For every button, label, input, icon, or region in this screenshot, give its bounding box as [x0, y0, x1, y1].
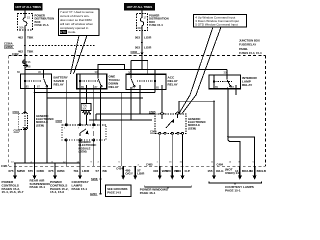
- junction dot on left feed: [24, 69, 26, 71]
- power distribution box label (left): [35, 14, 55, 28]
- svg-text:TBK: TBK: [27, 35, 34, 39]
- GEM module U2 (dashed, right): [149, 110, 186, 135]
- svg-text:10: 10: [250, 169, 254, 173]
- circuit breaker squiggle on left feed: [23, 60, 28, 68]
- svg-text:PAGE 46-1: PAGE 46-1: [140, 191, 156, 195]
- svg-text:O/BK: O/BK: [57, 169, 66, 173]
- svg-text:PAGE 45-1: PAGE 45-1: [30, 185, 46, 189]
- svg-text:G200: G200: [90, 192, 97, 196]
- wire header to fuse F1: [24, 11, 26, 14]
- wire bus B2 to relay3 pin 30: [130, 70, 132, 75]
- wire relay4 elbow to courtesy drop: [228, 137, 240, 166]
- bus wire B4: [47, 97, 143, 99]
- wire relay1 pin87 drop: [34, 89, 36, 164]
- bracket power windows: [145, 186, 192, 189]
- svg-text:SEE GROUNDS: SEE GROUNDS: [107, 187, 127, 191]
- arrow A11 courtesy lamps right 3: [250, 166, 267, 180]
- header bar HOT AT ALL TIMES (right): [124, 3, 155, 11]
- wire fuse F2 down (right feed): [141, 31, 143, 62]
- wire ground drop from B3: [100, 89, 102, 179]
- wire drops from relay3 pins: [131, 90, 162, 121]
- svg-text:S208: S208: [91, 177, 98, 181]
- svg-text:PANEL: PANEL: [239, 47, 248, 51]
- legend pointer wires to GEM pins: [179, 27, 213, 114]
- svg-text:JUNCTION BOX: JUNCTION BOX: [239, 39, 260, 43]
- svg-text:FUSE/RELAY: FUSE/RELAY: [239, 43, 256, 47]
- wire GEM U3 top feeds: [65, 80, 67, 125]
- arrow A5 power windows feed 1: [116, 166, 134, 180]
- bus wire B2 (main feed bus): [25, 69, 227, 71]
- bus wire B5: [96, 113, 155, 115]
- svg-text:mode.: mode.: [68, 30, 77, 34]
- resistor R1 10K: [81, 104, 91, 125]
- svg-text:O: O: [92, 128, 94, 130]
- svg-text:306: 306: [153, 169, 158, 173]
- svg-text:503: 503: [135, 46, 140, 50]
- power distribution box label (right): [149, 14, 169, 28]
- svg-text:462: 462: [18, 49, 23, 53]
- svg-text:RELAY: RELAY: [242, 83, 253, 87]
- connector label C485 on border: [146, 162, 153, 166]
- svg-text:155: 155: [207, 169, 212, 173]
- junction dot bus B2 at F2: [141, 69, 143, 71]
- connector C2368 dot on right feed: [141, 41, 143, 43]
- page connector label left edge: [1, 164, 8, 168]
- svg-text:LB/R: LB/R: [82, 169, 90, 173]
- GEM module U1 (dashed): [13, 110, 28, 133]
- svg-text:BK/LB: BK/LB: [257, 169, 267, 173]
- wire relay4 elbow to far right drop: [228, 89, 255, 166]
- svg-text:C485: C485: [146, 162, 153, 166]
- arrow A2 rear air suspension: [28, 163, 45, 180]
- junction dots on B3: [100, 92, 102, 94]
- wire relay4 pin85 long drop: [213, 101, 215, 166]
- bus wire B3: [35, 92, 156, 94]
- arrow A6 power windows 1: [153, 166, 168, 180]
- svg-text:FUSE 15-A: FUSE 15-A: [35, 23, 49, 27]
- junction dot elbow branch: [227, 136, 229, 138]
- text block courtesy lamps right: [225, 185, 254, 193]
- arrow A5b power windows feed 2: [133, 166, 145, 180]
- note box (7 and O sense note): [59, 9, 100, 36]
- svg-text:RELAY: RELAY: [109, 85, 120, 89]
- arrow A7 power windows 2: [165, 166, 179, 180]
- wire relay1 right pin down to bus B4: [46, 89, 48, 99]
- wire bus B2 to relay3 right top pin: [154, 70, 156, 75]
- svg-text:O/BK: O/BK: [37, 169, 46, 173]
- wire bus B2 to relay4 pin 30: [226, 70, 228, 76]
- wire relay2 pins down to GEM U2 connector: [80, 89, 94, 125]
- arrow A4 courtesy lamps left: [73, 166, 90, 180]
- svg-text:C236A: C236A: [4, 41, 13, 45]
- legend box (window command inputs): [194, 15, 247, 28]
- bus wire B6: [89, 119, 152, 121]
- GEM module U2 label: [188, 117, 206, 131]
- svg-text:LG/R: LG/R: [144, 35, 152, 39]
- wire GEM U1 bottom down to bus B7: [24, 129, 26, 163]
- relay K4 label: [242, 76, 258, 87]
- wire bridge relay3 pin30 to second top pin: [131, 61, 148, 75]
- connector pin ticks and numbers along border: [15, 165, 55, 168]
- svg-text:781: 781: [73, 169, 78, 173]
- svg-text:M/BR: M/BR: [17, 169, 26, 173]
- svg-text:462: 462: [18, 35, 23, 39]
- wire header to fuse F2: [141, 11, 143, 14]
- connector C402: [12, 52, 26, 58]
- wire relay2 pin to resistor: [86, 89, 88, 104]
- GEM module U1 label: [36, 114, 54, 128]
- wire F2 feed to bus B2: [141, 56, 143, 70]
- wire relay4 short pin stub: [235, 89, 237, 95]
- svg-text:C505: C505: [150, 130, 157, 134]
- svg-text:HOT AT ALL TIMES: HOT AT ALL TIMES: [15, 5, 41, 9]
- svg-text:14: 14: [235, 169, 239, 173]
- svg-text:PAGE 15-1: PAGE 15-1: [225, 189, 241, 193]
- wire H at 101 to relay4 pin85: [179, 100, 214, 102]
- wire label 503 LG/R (upper): [135, 35, 152, 39]
- svg-text:T20: T20: [165, 169, 171, 173]
- arrow A9 courtesy lamps right 1: [207, 166, 224, 180]
- bus wire B1 (bridge over relay2): [98, 65, 125, 75]
- svg-text:RELAY: RELAY: [54, 82, 65, 86]
- svg-text:PAGE 15-1: PAGE 15-1: [72, 187, 88, 191]
- svg-text:BK: BK: [103, 169, 108, 173]
- svg-text:C424: C424: [116, 167, 123, 171]
- bottom bus B7: [14, 162, 81, 164]
- svg-text:FUSE 15-4: FUSE 15-4: [149, 23, 163, 27]
- svg-text:15-4, 15-6: 15-4, 15-6: [50, 190, 64, 194]
- text block mirror controls: [2, 180, 24, 194]
- header bar HOT AT ALL TIMES (left): [14, 3, 43, 11]
- svg-text:RELAY: RELAY: [168, 83, 179, 87]
- interior boundary dashed box: [9, 56, 266, 167]
- wire label 462 TBK (upper): [18, 35, 34, 39]
- connector label C484 on border right: [217, 162, 224, 166]
- wire fuse F1 to relay (left feed): [24, 30, 26, 74]
- svg-text:O/LG: O/LG: [216, 169, 224, 173]
- arrow A1 mirror controls: [8, 163, 25, 180]
- relay K1 label: [54, 75, 69, 86]
- junction box fuse/relay panel label: [239, 39, 262, 56]
- wire B4 down left drop: [46, 98, 48, 163]
- arrow A3 power controls: [48, 163, 65, 180]
- svg-text:30A: 30A: [19, 26, 24, 30]
- svg-text:HOT AT ALL TIMES: HOT AT ALL TIMES: [127, 5, 153, 9]
- wire relay1 pin85 down to GEM U1: [24, 89, 26, 114]
- GEM module U3 (dashed, center): [56, 119, 107, 141]
- text block rear air suspension: [30, 179, 51, 190]
- text block courtesy lamps left: [72, 180, 90, 191]
- ground G200: [100, 179, 102, 194]
- text block power controls: [50, 180, 69, 194]
- svg-text:LG/R: LG/R: [144, 46, 152, 50]
- connector C602: [131, 50, 144, 56]
- dashed net line from C236: [29, 44, 95, 46]
- svg-text:FUSES 15-4, 15-4: FUSES 15-4, 15-4: [239, 51, 262, 55]
- svg-text:15-4, 15-6, 15-7: 15-4, 15-6, 15-7: [2, 190, 24, 194]
- arrow A8 power windows 3: [176, 166, 190, 180]
- wire courtesy drop: [121, 93, 123, 167]
- junction dots lower mesh: [86, 97, 87, 98]
- wire label 462 TBK (lower): [18, 49, 34, 53]
- svg-text:(GEM): (GEM): [188, 126, 196, 130]
- relay K3 ACC DELAY RELAY: [126, 70, 166, 89]
- wires GEM U2 pins down to border: [160, 134, 183, 166]
- svg-text:O.P: O.P: [185, 169, 190, 173]
- svg-text:57: 57: [96, 169, 100, 173]
- bracket courtesy lamps: [209, 182, 262, 185]
- wire label 503 LG/R (lower): [135, 46, 152, 50]
- not used stub label: [225, 168, 239, 176]
- wire bus B2 to relay1 pin 30: [43, 70, 45, 75]
- see grounds box: [106, 185, 132, 197]
- svg-text:TOU: TOU: [82, 106, 87, 108]
- svg-text:TBK: TBK: [27, 49, 34, 53]
- svg-text:C484: C484: [217, 162, 224, 166]
- svg-text:LB/R: LB/R: [137, 172, 145, 176]
- svg-text:675: 675: [48, 169, 53, 173]
- wire drop to GEM U3 pin from H101: [178, 101, 180, 114]
- fuse F1 in power distribution box (dashed): [18, 14, 33, 31]
- relay K3 label: [168, 76, 179, 87]
- svg-text:675: 675: [8, 169, 13, 173]
- splice S208: [100, 178, 102, 180]
- GEM module U3 label: [79, 140, 97, 154]
- fuse F2 in power distribution box (dashed): [137, 14, 148, 31]
- wire GEM U3 pins down to border: [66, 140, 94, 166]
- svg-text:503: 503: [135, 35, 140, 39]
- arrow A10 courtesy lamps right 2: [235, 166, 252, 180]
- relay K1 BATTERY SAVER RELAY: [17, 70, 52, 89]
- svg-text:C481: C481: [1, 164, 8, 168]
- svg-text:C236B: C236B: [4, 45, 13, 49]
- junction dot at relay4 pin85: [213, 100, 215, 102]
- svg-text:5 OTD Window Command Input: 5 OTD Window Command Input: [195, 23, 238, 27]
- wire relay3 to GEM U3 via B5: [95, 114, 97, 120]
- svg-text:(GEM): (GEM): [36, 123, 44, 127]
- svg-text:966: 966: [176, 169, 181, 173]
- text block power windows: [140, 188, 168, 196]
- svg-text:C602: C602: [131, 50, 138, 54]
- relay K2 ONE TOUCH DOWN RELAY: [77, 70, 107, 89]
- connector C236A/C236B: [4, 41, 26, 49]
- svg-text:30A: 30A: [137, 26, 142, 30]
- wire label 57 BK: [96, 169, 108, 173]
- relay K2 label: [109, 75, 121, 90]
- svg-text:675: 675: [28, 169, 33, 173]
- relay K4 INTERIOR LAMP RELAY: [209, 71, 241, 89]
- junction dot relay3 pin30: [130, 69, 132, 71]
- note pointer wires to pins 7 and O: [71, 36, 80, 75]
- svg-text:ETC: ETC: [60, 30, 67, 34]
- wire B3 right drop to relay3: [154, 90, 156, 93]
- svg-text:PAGE 14-3: PAGE 14-3: [107, 191, 121, 195]
- svg-text:O/GY: O/GY: [125, 172, 134, 176]
